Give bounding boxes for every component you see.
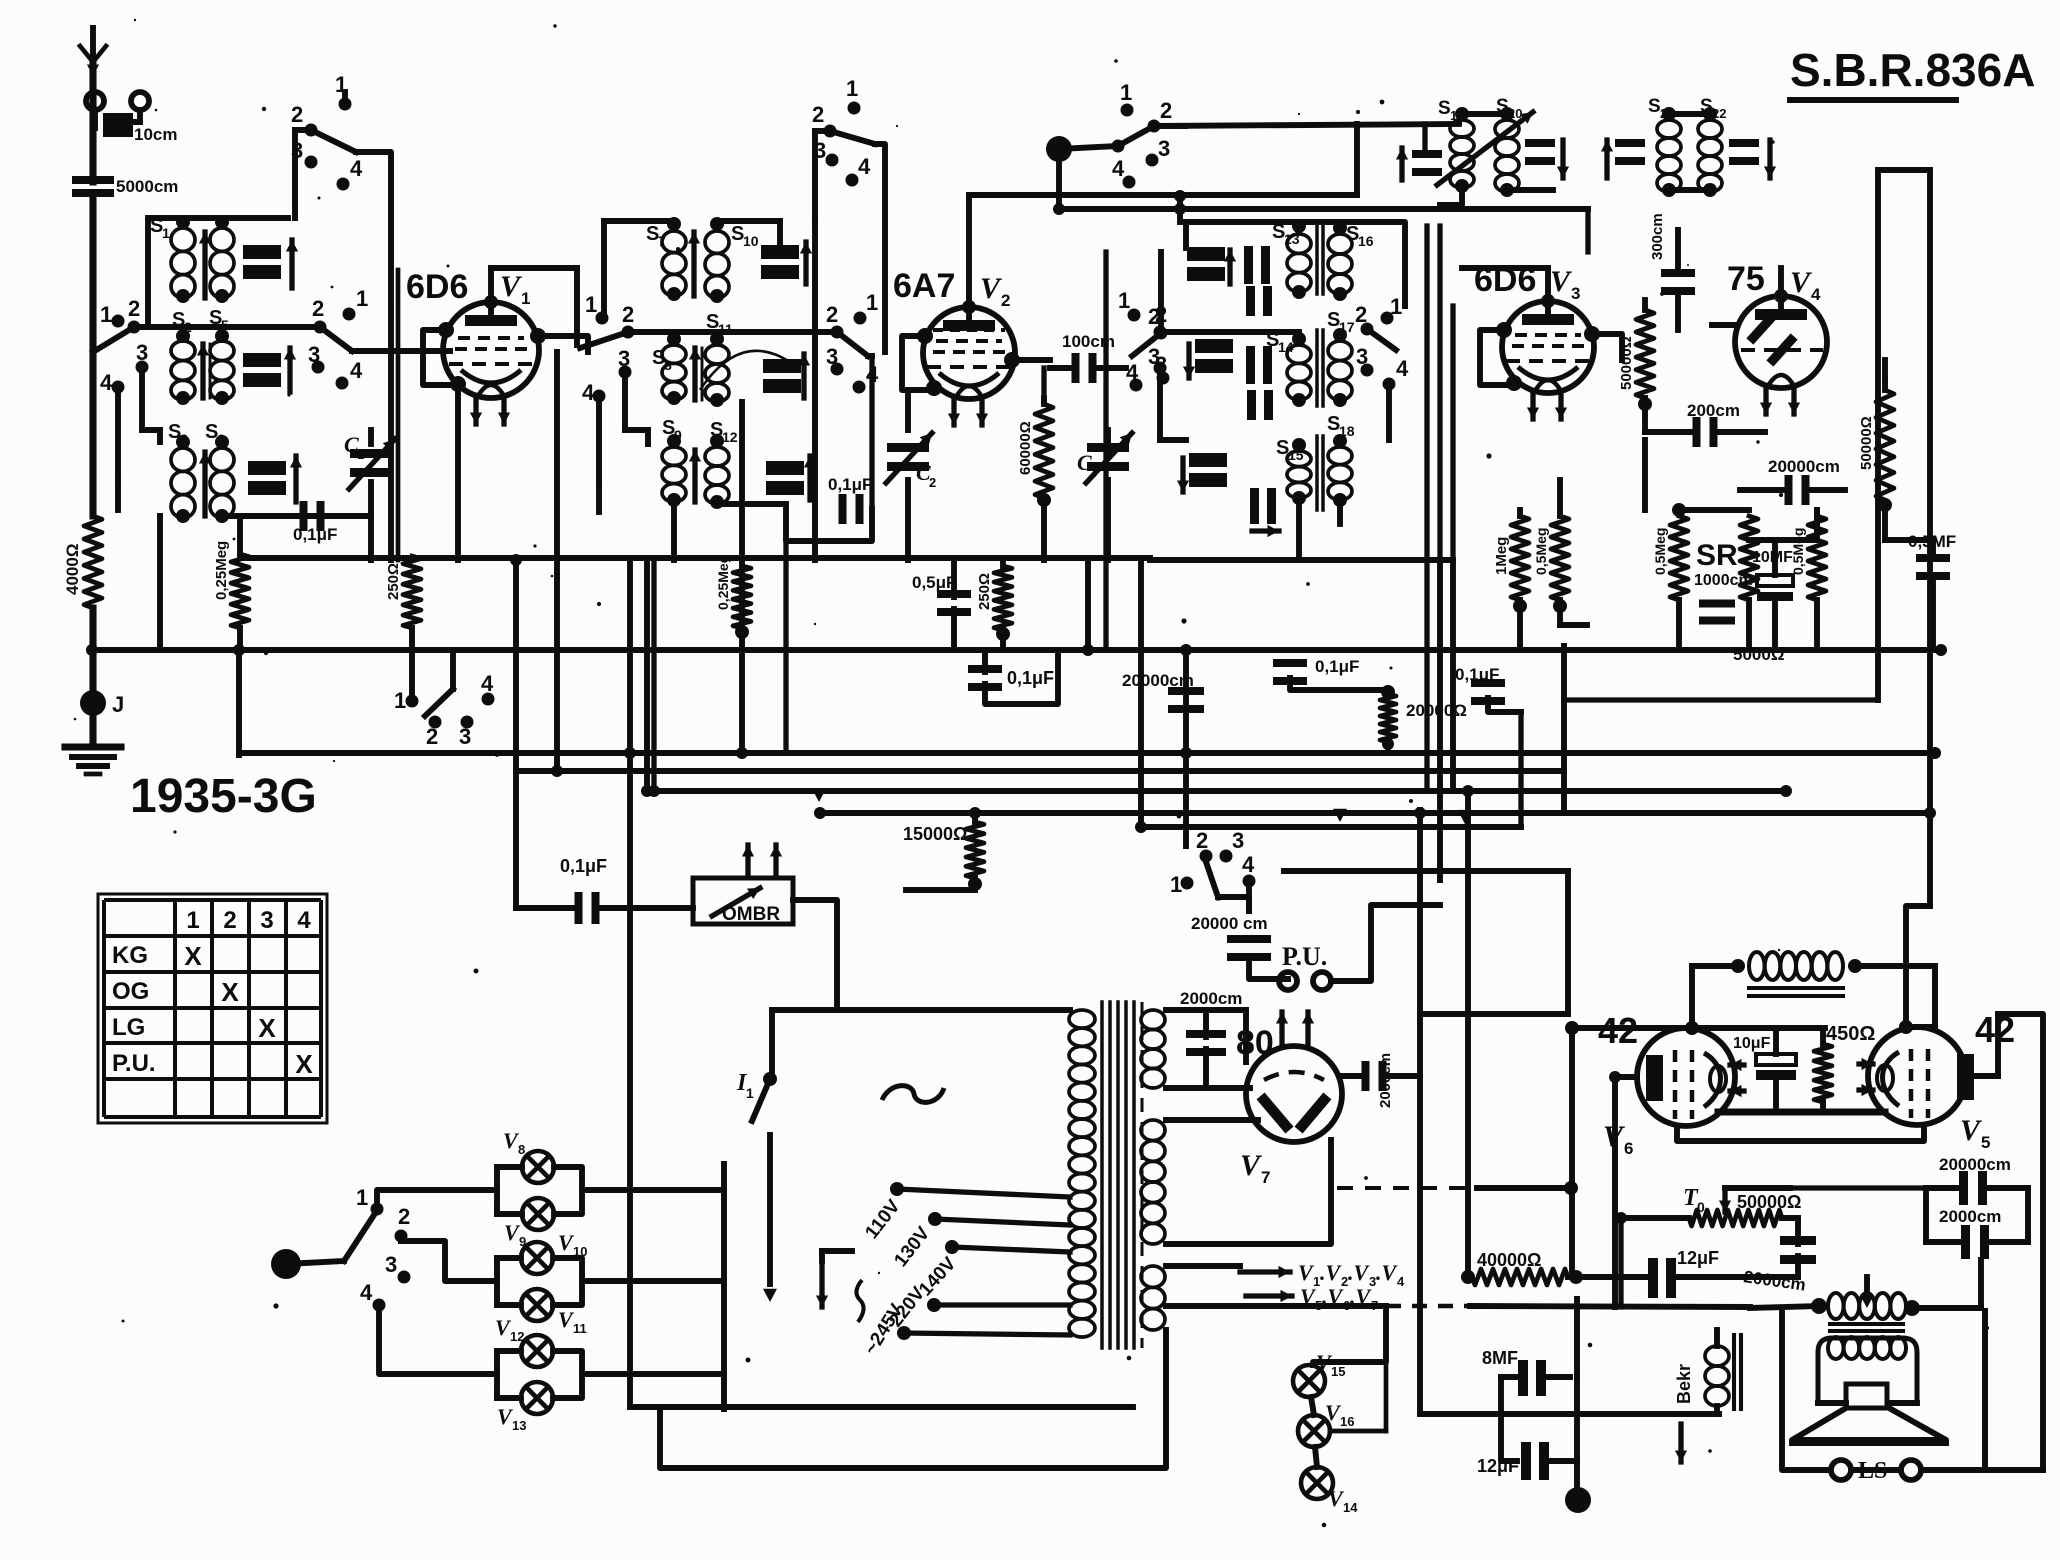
x [1571,813,1573,1277]
wire HT top to V7 [1166,1010,1246,1062]
wire [236,650,242,755]
wire contact4 down [118,392,152,510]
resistor 0,5Meg [1533,516,1569,613]
resistor 60000Ω [1017,404,1053,498]
capacitor 10cm [103,113,177,144]
wire C1 vertical [368,430,374,516]
speaker cone [1792,1408,1946,1443]
wire fil top [1166,1120,1258,1132]
resistor 20000Ω [1380,694,1467,750]
capacitor 12μF coupling [1648,1258,1676,1298]
svg-text:1Meg: 1Meg [1493,537,1510,575]
trimmer capacitor row2 mid block [763,354,810,398]
wire contact4 [1370,389,1389,440]
svg-text:OG: OG [112,978,149,1005]
wire [1488,650,1521,827]
wire [957,400,959,560]
wire contact4 down [599,401,648,512]
svg-text:2: 2 [291,102,303,127]
wire 0,5MF down [1930,540,1936,646]
svg-text:8MF: 8MF [1482,1348,1518,1368]
svg-text:2000cm: 2000cm [1180,989,1242,1008]
svg-text:3: 3 [1232,828,1244,853]
wire OT right up [1912,1260,1981,1308]
capacitor 2000cm right of V7 [1362,1053,1395,1108]
label V1.V2.V3.V4 [1298,1260,1405,1289]
arrow coupling S7 [688,232,700,296]
wire V1 grid bracket [423,322,466,392]
wire V5 grid up [1966,1014,1998,1076]
capacitor 2000cm left of V7 [1186,1010,1226,1088]
svg-text:450Ω: 450Ω [1826,1023,1875,1045]
svg-text:OMBR: OMBR [722,904,780,925]
speckles [676,247,680,251]
capacitor 0,1μF mid2 [1273,657,1359,685]
svg-text:X: X [295,1049,313,1079]
variable capacitor C3 [1077,433,1132,483]
svg-text:V: V [1603,1120,1626,1153]
x [1419,1413,1421,1415]
svg-text:V: V [1550,265,1573,298]
wire transformer top [772,1007,1070,1013]
switch I1 [752,1072,777,1121]
wires inter-row [1299,400,1340,445]
node V6 anode [1685,1021,1699,1035]
wire [1568,1274,1648,1280]
title S.B.R.836A [1790,44,2035,100]
wire contact3 to row3 [1160,372,1186,462]
coil S16 [1328,221,1374,301]
svg-text:V: V [500,270,523,303]
switch contacts top mid 1-4 [812,76,875,187]
label V5 [1960,1114,1990,1152]
capacitor 12μF filter [1521,1442,1549,1480]
svg-text:12μF: 12μF [1677,1248,1719,1268]
wire S9 bottom down [671,502,677,560]
svg-text:4: 4 [1397,1274,1405,1289]
tube V6 42 [1637,1028,1744,1126]
svg-text:1: 1 [394,688,406,713]
x [1567,1014,1569,1028]
label V1 [500,270,530,308]
svg-text:.V: .V [1376,1260,1399,1285]
lamp V8 [503,1128,554,1183]
svg-text:250Ω: 250Ω [976,573,993,610]
svg-text:1: 1 [356,286,368,311]
lamp V16 [1298,1400,1354,1447]
wire heater to dial lamps [1313,1306,1386,1365]
label 8MF [1482,1348,1518,1368]
wire 100cm [1050,365,1126,371]
switch contacts 1-4 left block [93,296,149,395]
trimmer capacitor row3 left block [248,456,302,502]
wire bus y771 [516,768,1564,774]
x [1782,1217,1798,1219]
svg-text:2: 2 [398,1204,410,1229]
x [1966,1075,1998,1077]
svg-text:3: 3 [1158,136,1170,161]
contact 1 right block [1381,294,1403,325]
svg-text:1: 1 [746,1085,754,1101]
wire [1290,650,1395,699]
wire S19 bottom [1440,186,1462,205]
wire bus y753 [239,750,1935,756]
wire to bus [237,516,243,650]
wire bus y558 left part [240,555,1150,561]
coil S3 [168,421,195,523]
svg-text:20000 cm: 20000 cm [1191,914,1268,933]
capacitor 0,5μF [912,573,971,616]
svg-text:20000cm: 20000cm [1939,1155,2011,1174]
label 75 [1727,260,1765,298]
capacitor S20 trimmer [1525,139,1569,178]
svg-text:0,1μF: 0,1μF [1315,657,1359,676]
capacitor 20000cm right [1768,457,1840,505]
wire [1710,114,1744,144]
wire contact2 row [134,324,320,330]
coil S10 [705,217,759,303]
x [1386,1305,1420,1307]
wire [1676,1274,1798,1280]
wire HT mid [1166,1085,1250,1091]
x [1798,1276,1926,1278]
wire y1414 [1420,1411,1719,1417]
switch knob filter [1046,136,1118,162]
wire top switch down [875,144,885,352]
wire V1 plate out [530,328,588,352]
label 2000cm [1180,989,1242,1008]
wire [1926,1239,2028,1245]
wire contact2 up [1161,252,1280,333]
svg-text:10μF: 10μF [1733,1035,1771,1052]
capacitor 20000cm output [1959,1171,1987,1205]
capacitor S21 trimmer [1601,139,1645,178]
svg-text:6: 6 [1624,1139,1633,1158]
x [1825,1268,1827,1270]
wire to C2 [905,390,911,430]
wire 0,5uF [951,558,957,650]
svg-text:12: 12 [510,1329,524,1344]
wire [1517,510,1523,648]
capacitor 300cm [1649,213,1695,295]
x [1419,810,1421,813]
arrow coupling S9-S12 [689,450,701,502]
speaker housing + secondary [1818,1337,1917,1403]
wire wiper to caps [1790,1185,1926,1190]
switch contacts right of left block [308,286,368,390]
svg-text:.V: .V [1320,1260,1343,1285]
wire [93,702,200,704]
wire 15000 bottom [906,813,982,891]
wire contact1 to V8 box [377,1190,497,1209]
wire PU right [1331,905,1440,981]
wire Bekr top [1615,1330,1717,1346]
potentiometer To 50000Ω [1689,1210,1782,1226]
label 6D6 V3 [1474,261,1536,299]
wire S21-S22 tops [1669,111,1710,117]
x [1750,1310,1782,1312]
svg-text:15: 15 [1331,1364,1345,1379]
wire [1050,359,1062,361]
fuse squiggle [882,1086,944,1103]
wire y700 [1564,697,1878,702]
wire switch to V1 grid [352,348,450,354]
capacitor 200cm [1687,401,1740,447]
label 80 [1236,1024,1274,1062]
x [1997,1014,1999,1076]
wire V2 bus to S13 block [1174,190,1186,222]
wire [1645,432,1679,516]
svg-text:5000cm: 5000cm [116,177,178,196]
coil S7 [646,217,686,301]
wire to V5 anode [1906,966,1935,1027]
svg-text:4: 4 [858,154,871,179]
svg-text:5: 5 [1981,1133,1990,1152]
svg-text:2000cm: 2000cm [1377,1053,1394,1108]
speaker magnet [1846,1384,1887,1408]
label V6 [1603,1120,1633,1158]
label 12uF [1677,1248,1719,1268]
coil S14 [1266,329,1311,407]
wire [504,398,506,650]
wire [1878,380,1892,540]
x [1798,1276,2028,1278]
svg-text:3: 3 [1090,465,1097,480]
svg-text:2: 2 [426,724,438,749]
wire [1246,886,1252,911]
svg-text:3: 3 [1571,284,1580,303]
transformer heater winding [1141,1266,1165,1330]
svg-text:15000Ω: 15000Ω [903,824,968,844]
transformer core [1102,1002,1142,1348]
wire heater [1166,1266,1246,1306]
x [1934,573,1936,966]
capacitor S22 trimmer [1729,139,1776,178]
label 20000cm out [1939,1155,2011,1174]
svg-text:40000Ω: 40000Ω [1477,1250,1542,1270]
label 6D6 [406,268,468,306]
svg-text:2: 2 [1355,302,1367,327]
wire contact3 to S3 [118,327,160,442]
svg-text:2: 2 [826,302,838,327]
wire thin link [700,351,790,390]
wire long vertical x815 [812,221,818,560]
svg-text:V: V [1240,1149,1263,1182]
arrow heater V1-V4 [1166,1266,1290,1278]
capacitor 10μF [1756,1054,1796,1080]
wire bus y560 right part [1150,557,1453,563]
coil S1 [150,215,195,303]
label I1 [736,1070,754,1101]
wire contact2 to V10 box [401,1241,497,1281]
capacitor 1000cm [1699,600,1735,625]
svg-text:20000Ω: 20000Ω [1406,701,1467,720]
svg-text:0,5Meg: 0,5Meg [1652,528,1668,575]
capacitor series row2 right block [1246,346,1273,420]
wire [717,221,780,244]
svg-text:X: X [258,1013,276,1043]
wire join [1885,505,1933,540]
wire vertical x1420 [1417,810,1423,1414]
wire left block top bus [148,218,236,327]
wire [1638,300,1652,432]
antenna terminals [86,92,149,128]
wire S11 bottom down [739,402,745,560]
wire 300cm [1675,230,1681,330]
lamp V9 [504,1198,554,1249]
arrow coupling S8-S11 [689,348,702,400]
label 2000cm mid [1742,1267,1806,1294]
svg-text:1: 1 [585,292,597,317]
svg-text:LG: LG [112,1014,145,1041]
x [1776,1112,1823,1141]
svg-text:2: 2 [1160,98,1172,123]
coil S6 [205,421,234,523]
wire heater dashed to V5V6V7 [1337,1181,1578,1195]
x [1571,1277,1573,1299]
x [1799,1141,1801,1172]
label Bekr [1674,1364,1694,1404]
svg-text:10: 10 [743,233,759,249]
svg-text:2000cm: 2000cm [1939,1207,2001,1226]
wires pu sw [1186,846,1226,883]
wire switch to S19 [1154,124,1459,195]
junction arrows on bus [812,789,1473,824]
wire V1 anode top [484,268,577,345]
wire lamp boxes to rail [582,1190,724,1374]
wire bus y827 segment [1141,824,1521,830]
svg-text:3: 3 [1356,344,1368,369]
wire trimmer row1 [236,218,288,244]
arrow variable S20 [1437,112,1533,185]
wire 60000 down [1037,398,1051,560]
transformer primary winding [1069,1010,1095,1337]
table band switch legend [98,894,327,1123]
svg-text:4: 4 [1112,156,1125,181]
lamps V10 V11 parallel pair [497,1258,582,1305]
capacitor 20000cm mid [1122,671,1204,713]
wire [1000,558,1006,650]
arrows OMBR [742,845,782,876]
wire to V6 anode [1572,966,1692,1028]
svg-text:20000cm: 20000cm [1768,457,1840,476]
svg-text:3: 3 [385,1252,397,1277]
svg-text:V: V [980,272,1003,305]
wire antenna to resistor [89,197,96,516]
coil S9 [662,417,686,507]
trimmer capacitor row3 mid block [766,456,816,500]
resistor 50000Ω right [1858,390,1894,500]
resistor 1Meg [1493,516,1529,613]
wire lever to cap [1218,897,1249,911]
x [1614,1306,1616,1308]
coil S15 [1276,437,1311,505]
wire bus y813 [820,810,1930,816]
svg-text:13: 13 [512,1418,526,1433]
arrow mains tap [816,1251,852,1307]
arrow right block bottom [1252,525,1279,537]
lamps V12 V13 parallel pair [497,1351,582,1398]
svg-text:2: 2 [1148,304,1160,329]
capacitor 0,1μF left block [293,501,337,544]
wire row3 bottom to C1 branch [222,513,370,519]
wire [1462,222,1548,268]
wire [1749,540,1817,560]
wire coil bottoms [183,515,336,517]
wire vertical x1468 [1465,791,1471,1277]
svg-text:60000Ω: 60000Ω [1017,421,1034,475]
wire [1160,328,1299,332]
svg-text:V: V [1960,1114,1983,1147]
transformer rectifier filament winding [1141,1120,1165,1244]
choke core lines [1749,988,1843,996]
wire [1560,480,1587,625]
label 42 right [1975,1009,2015,1050]
resistor 40000Ω [1461,1269,1583,1285]
resistor 0,25Meg mid [715,555,751,639]
wire [1507,114,1575,190]
wire heater y1306 [1240,1306,1750,1307]
arrow heater V5-V7 [1246,1290,1292,1302]
meter OMBR [693,878,793,925]
svg-text:0,25Meg: 0,25Meg [213,541,230,600]
svg-text:S.B.R.836A: S.B.R.836A [1790,44,2035,96]
svg-text:4: 4 [360,1280,373,1305]
svg-text:2: 2 [223,907,236,934]
resistor 0,5Meg right [1790,516,1826,600]
resistor 4000Ω [63,516,102,608]
wire [739,628,744,650]
svg-text:V: V [1790,266,1813,299]
wire [1385,742,1390,753]
wire V3 grid bracket [1480,322,1522,391]
wire row2 mid [628,329,837,335]
trimmer capacitor row1 left block [243,240,298,288]
wire C2 down [905,480,911,560]
wire cathode lower bus [1677,1127,1924,1141]
resistor SR right [1740,516,1758,600]
choke output coupling coil [1731,952,1862,980]
x [92,649,94,651]
svg-text:3: 3 [136,340,148,365]
wire bottoms S21 [1669,187,1710,193]
coil S5 [209,307,234,405]
svg-text:1: 1 [846,76,858,101]
label 10MF [1752,549,1793,566]
svg-text:3: 3 [618,346,630,371]
tube V7 80 rectifier [1246,1012,1342,1142]
svg-text:0,5μF: 0,5μF [912,573,956,592]
svg-text:0,1μF: 0,1μF [828,475,872,494]
node V5 anode [1899,1020,1913,1034]
wire trimmer feed [1183,222,1189,332]
svg-text:Bekr: Bekr [1674,1364,1694,1404]
svg-text:4: 4 [350,358,363,383]
wire contact3 to S9 [625,377,648,444]
svg-text:0,5Meg: 0,5Meg [1533,528,1549,575]
wire To left [1621,1218,1689,1307]
svg-text:1: 1 [162,225,170,241]
extra grid dash V2 [933,328,1005,332]
wire contact4 to V12 box [379,1310,497,1374]
core S15-S18 [1317,436,1323,510]
speaker box [1782,1311,1985,1470]
wire [871,356,873,509]
label 12uF lower [1477,1456,1519,1476]
Bekr core [1734,1335,1741,1409]
svg-text:4: 4 [350,156,363,181]
svg-text:2: 2 [128,296,140,321]
